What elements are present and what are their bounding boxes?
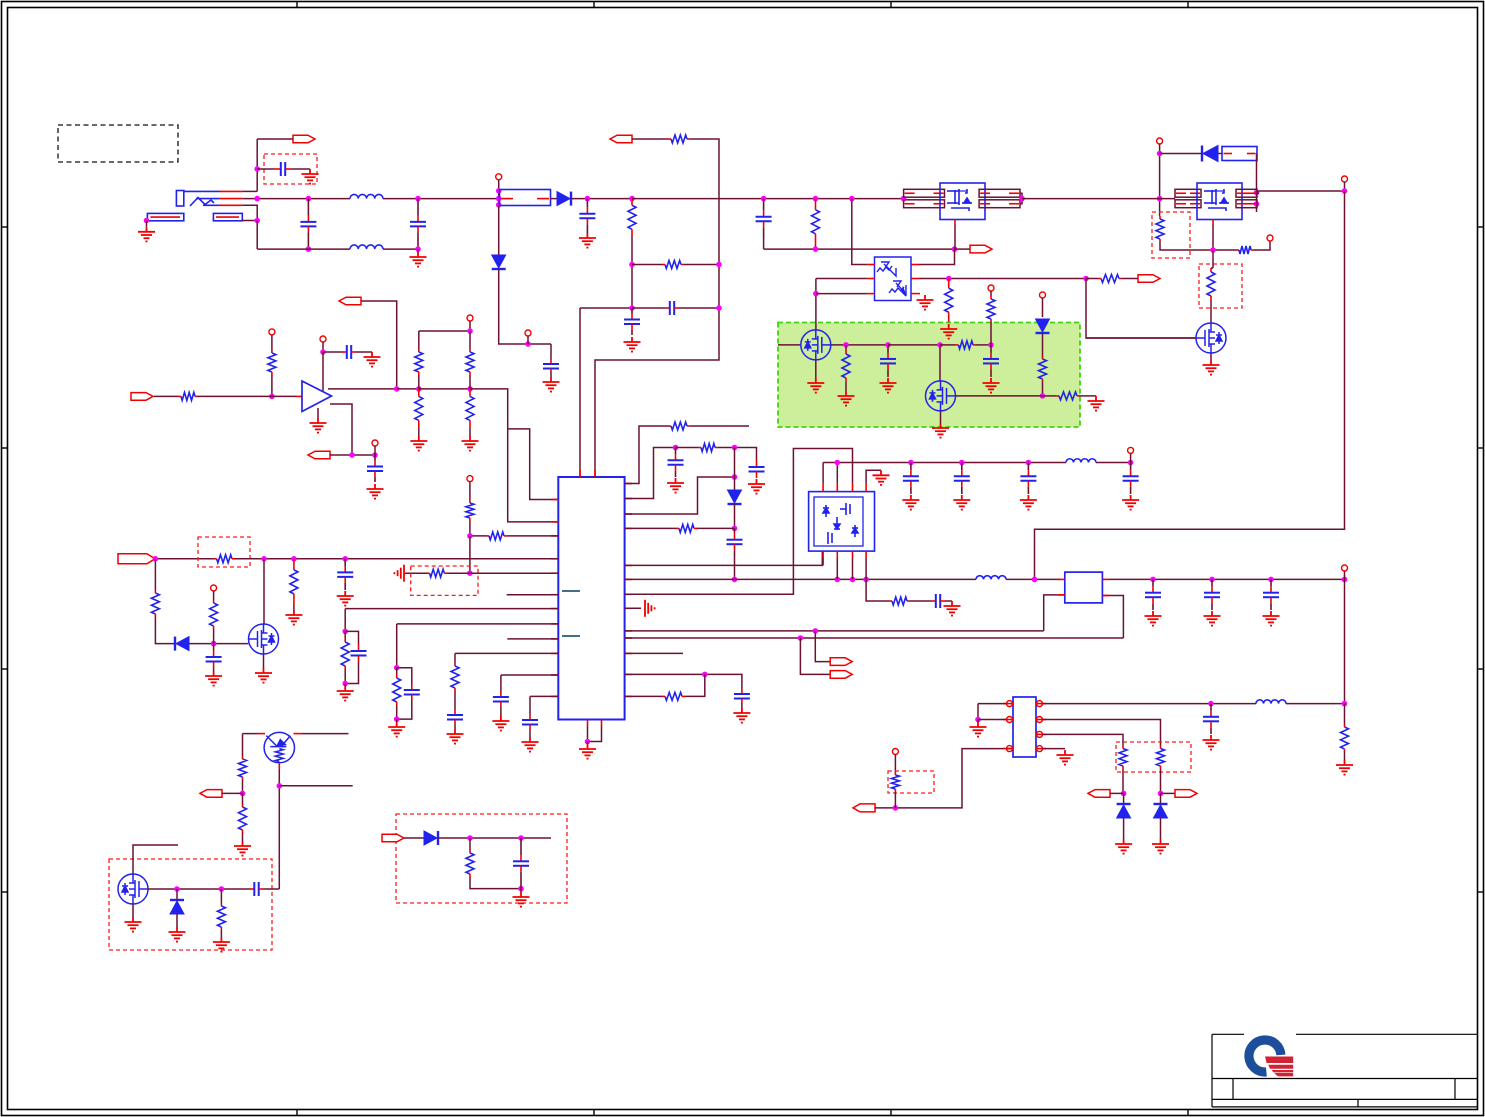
wire: [550, 344, 552, 360]
ground: [388, 722, 405, 737]
junction: [153, 556, 159, 562]
junction: [813, 628, 819, 634]
wire: [910, 600, 931, 602]
ground: [1203, 735, 1220, 750]
net label arrow: [853, 804, 875, 812]
wire: [257, 138, 293, 140]
resistor R19: [418, 389, 420, 397]
pin: [1267, 235, 1273, 241]
wire: [815, 360, 817, 378]
wire: [500, 675, 502, 692]
wire: [836, 558, 838, 579]
wire: [1043, 734, 1124, 745]
junction: [1121, 791, 1127, 797]
wire: [1086, 278, 1098, 280]
wire stub: [507, 594, 559, 596]
junction: [885, 342, 891, 348]
wire: [242, 205, 257, 220]
junction: [1254, 190, 1260, 196]
wire: [529, 696, 531, 715]
wire: [1210, 353, 1212, 360]
resistor R30: [454, 663, 456, 666]
wire: [133, 845, 178, 874]
wire: [919, 278, 1086, 280]
wire: [816, 278, 867, 280]
wire: [469, 521, 471, 536]
junction: [1157, 196, 1163, 202]
wire: [1043, 720, 1161, 746]
ground: [902, 495, 919, 510]
pin tab: [1175, 189, 1201, 197]
wire: [919, 249, 955, 264]
wire net VIN_RAW: [242, 198, 350, 200]
resistor R12: [990, 296, 992, 299]
wire: [396, 719, 398, 722]
junction: [320, 349, 326, 355]
ground: [125, 917, 142, 932]
resistor R35: [889, 600, 892, 602]
resistor R22: [469, 500, 471, 503]
wire: [469, 838, 471, 850]
junction: [1032, 577, 1038, 583]
wire: [198, 395, 296, 397]
junction: [988, 342, 994, 348]
resistor R37: [242, 804, 244, 807]
ground: [285, 610, 302, 625]
net label arrow: [830, 658, 852, 666]
capacitor C34: [1203, 704, 1219, 734]
junction: [585, 739, 591, 745]
junction: [1210, 247, 1216, 253]
wire: [1159, 215, 1161, 217]
zener diode D4: [1036, 319, 1050, 333]
ground: [624, 337, 641, 352]
red dashed box: [411, 566, 478, 595]
capacitor C2: [300, 199, 316, 250]
wire: [588, 726, 602, 742]
pin circle: [1007, 717, 1013, 723]
junction: [394, 386, 400, 392]
wire: [1210, 300, 1212, 323]
wire: [222, 792, 243, 794]
red dashed box: [888, 771, 934, 793]
junction: [673, 445, 679, 451]
capacitor C14: [337, 559, 353, 590]
ground: [1122, 495, 1139, 510]
junction: [415, 196, 421, 202]
junction: [1026, 460, 1032, 466]
wire: [718, 448, 757, 461]
wire: [292, 168, 310, 170]
wire: [257, 168, 274, 170]
chassis ground: [645, 600, 655, 617]
resistor R27: [427, 572, 430, 574]
wire bus: [155, 558, 214, 560]
pin circle: [1037, 717, 1043, 723]
wire stub: [625, 652, 683, 654]
ground: [410, 252, 427, 267]
junction: [629, 262, 635, 268]
wire: [374, 446, 376, 455]
resistor R2: [631, 199, 633, 206]
ground: [579, 233, 596, 248]
wire: [734, 555, 736, 579]
ground: [1057, 750, 1074, 765]
MOSFET load switch Q2: [1197, 183, 1242, 220]
wire: [625, 637, 1124, 639]
junction: [496, 202, 502, 208]
wire: [500, 706, 502, 716]
wire: [845, 345, 847, 350]
junction: [843, 342, 849, 348]
ground: [213, 937, 230, 952]
junction: [959, 460, 965, 466]
ground: [733, 708, 750, 723]
net label arrow VCC: [118, 554, 155, 564]
junction: [813, 246, 819, 252]
ground: [1020, 495, 1037, 510]
junction: [975, 717, 981, 723]
junction: [716, 305, 722, 311]
junction: [1342, 577, 1348, 583]
wire: [271, 335, 273, 350]
junction: [174, 886, 180, 892]
diode D6: [728, 490, 742, 504]
ground: [940, 324, 957, 339]
resistor R42: [1122, 746, 1124, 749]
ground: [255, 668, 272, 683]
wire: [469, 321, 471, 331]
wire: [852, 558, 854, 579]
red dashed box: [396, 814, 567, 903]
wire: [956, 395, 1043, 397]
junction: [467, 570, 473, 576]
wire: [697, 527, 735, 529]
resistor R39: [469, 850, 471, 853]
junction: [1254, 201, 1260, 207]
pin: [467, 476, 473, 482]
chassis ground: [394, 565, 404, 582]
wire: [189, 643, 248, 645]
pin: [1040, 292, 1046, 298]
junction: [813, 196, 819, 202]
junction: [1019, 196, 1025, 202]
junction: [1040, 393, 1046, 399]
IC pin stubs: [551, 470, 632, 726]
wire: [571, 198, 632, 200]
red dashed box (input cap group): [264, 154, 317, 184]
pin: [525, 330, 531, 336]
ground: [807, 378, 824, 393]
wire: [447, 572, 558, 574]
wire: [396, 706, 398, 719]
net label arrow input: [131, 393, 153, 401]
inductor L2: [350, 245, 383, 249]
wire: [470, 877, 521, 889]
junction: [585, 196, 591, 202]
capacitor C18: [493, 692, 509, 706]
junction: [467, 328, 473, 334]
ground: [880, 378, 897, 393]
resistor R24: [154, 590, 156, 593]
wire: [256, 221, 258, 250]
junction: [291, 556, 297, 562]
Q8 pin stubs: [257, 734, 302, 769]
ground: [1204, 611, 1221, 626]
junction: [732, 526, 738, 532]
wire: [154, 559, 156, 590]
wire: [990, 291, 992, 296]
wire: [1122, 769, 1124, 793]
wire: [836, 463, 838, 484]
wire: [1122, 278, 1138, 280]
wire: [822, 463, 824, 484]
ground: [205, 671, 222, 686]
wire gate: [778, 344, 801, 346]
junction: [342, 681, 348, 687]
pin tab: [904, 189, 945, 197]
wire: [213, 644, 215, 650]
ground: [917, 295, 934, 310]
wire: [551, 198, 558, 200]
wire: [579, 308, 581, 477]
gate stub Q2: [1212, 220, 1214, 226]
inductor L3: [976, 576, 1006, 580]
ground: [873, 470, 890, 485]
capacitor C3: [410, 199, 426, 250]
wire: [1043, 748, 1066, 750]
ground: [1115, 839, 1132, 854]
resistor R32: [698, 447, 701, 449]
wire: [418, 375, 420, 389]
wire: [418, 428, 420, 436]
junction: [1128, 460, 1134, 466]
wire: [587, 742, 589, 745]
inductor L1: [350, 194, 383, 198]
wire: [469, 482, 471, 500]
wire: [278, 769, 280, 889]
wire bus: [823, 462, 1066, 464]
wire: [242, 833, 244, 841]
junction: [893, 805, 899, 811]
ground: [1263, 611, 1280, 626]
junction: [1208, 701, 1214, 707]
junction: [525, 341, 531, 347]
wire: [263, 559, 265, 624]
U4 pin stubs: [1058, 579, 1109, 595]
wire: [397, 700, 412, 719]
op-amp input stub: [296, 395, 302, 397]
ground: [983, 378, 1000, 393]
wire: [356, 351, 372, 353]
capacitor C31: [1263, 579, 1279, 610]
wire: [625, 449, 853, 595]
junction: [908, 460, 914, 466]
wire: [470, 535, 486, 537]
capacitor C9: [880, 345, 896, 377]
capacitor C11: [342, 345, 356, 359]
wire: [875, 749, 1013, 808]
junction: [254, 166, 260, 172]
ground: [953, 495, 970, 510]
wire: [383, 248, 418, 250]
red dashed box: [198, 537, 250, 567]
logo: [1249, 1040, 1293, 1076]
wire: [454, 724, 456, 729]
capacitor C19: [522, 715, 538, 729]
wire: [293, 605, 295, 610]
junction: [277, 783, 283, 789]
resistor R9: [1210, 268, 1212, 272]
wire: [587, 726, 589, 742]
pin tab: [1175, 200, 1201, 208]
wire: [852, 199, 868, 265]
ground: [337, 686, 354, 701]
wire: [322, 352, 324, 391]
wire: [155, 617, 175, 644]
wire: [345, 662, 358, 684]
wire: [631, 236, 633, 308]
junction: [1158, 791, 1164, 797]
diode D1: [557, 192, 571, 206]
junction: [518, 835, 524, 841]
capacitor C15: [351, 644, 367, 662]
ground: [838, 391, 855, 406]
junction: [415, 246, 421, 252]
resistor R25: [213, 600, 215, 603]
wire: [977, 720, 979, 723]
wire: [1218, 153, 1222, 155]
op-amp U3: [302, 381, 332, 412]
pin circle: [1037, 701, 1043, 707]
wire: [550, 372, 552, 377]
wire to IC: [470, 389, 558, 522]
wire: [1212, 225, 1214, 250]
dual MOSFET block Q7: [809, 492, 875, 551]
module U4: [1065, 572, 1103, 603]
wire: [940, 344, 955, 346]
junction: [1157, 151, 1163, 157]
wire: [1130, 453, 1132, 462]
wire: [1254, 241, 1270, 250]
junction: [372, 452, 378, 458]
wire: [1344, 579, 1346, 703]
junction: [219, 886, 225, 892]
pin: [892, 749, 898, 755]
wire: [625, 607, 641, 609]
MOSFET Q6: [249, 624, 279, 654]
ground: [462, 436, 479, 451]
ground: [337, 591, 354, 606]
inductor L4: [1066, 459, 1096, 463]
junction: [937, 342, 943, 348]
wire stub: [507, 638, 558, 640]
wire: [632, 198, 904, 200]
resistor R41: [1344, 724, 1346, 727]
wire stub: [302, 733, 349, 735]
wire: [344, 670, 346, 684]
jack pin stubs: [150, 191, 242, 217]
net label arrow: [339, 297, 361, 305]
junction: [394, 716, 400, 722]
wire: [361, 301, 397, 389]
junction: [1268, 577, 1274, 583]
ground: [513, 892, 530, 907]
wire: [330, 454, 352, 456]
wire: [685, 674, 705, 696]
wire: [344, 609, 346, 632]
capacitor C24: [931, 594, 945, 608]
MOSFET Q4: [801, 330, 831, 360]
wire: [815, 631, 830, 662]
ground: [932, 423, 949, 438]
junction: [952, 246, 958, 252]
junction: [467, 386, 473, 392]
wire: [438, 837, 551, 839]
capacitor C1: [274, 162, 292, 176]
wire: [154, 395, 178, 397]
pin: [211, 585, 217, 591]
junction: [835, 577, 841, 583]
wire: [625, 674, 742, 689]
MOSFET Q9: [118, 874, 148, 904]
capacitor C32: [250, 882, 264, 896]
ground: [234, 841, 251, 856]
text placeholder box (black dashed): [58, 125, 178, 162]
wire: [317, 408, 319, 418]
junction: [254, 218, 260, 224]
ground: [522, 737, 539, 752]
junction: [849, 196, 855, 202]
wire: [1123, 793, 1125, 803]
ground: [302, 169, 319, 184]
pin VIN test point: [496, 174, 502, 180]
wire: [954, 225, 956, 249]
net label arrow: [1138, 275, 1160, 283]
pin tab: [904, 200, 945, 208]
wire: [469, 428, 471, 436]
wire: [501, 674, 558, 676]
junction: [813, 291, 819, 297]
wire: [1160, 153, 1202, 155]
wire: [1086, 337, 1196, 339]
highlight box (green region): [778, 323, 1080, 428]
wire: [264, 888, 280, 890]
pin: [1342, 565, 1348, 571]
wire: [454, 653, 456, 663]
junction: [518, 886, 524, 892]
wire: [625, 527, 676, 529]
wire: [507, 535, 558, 537]
net label arrow: [610, 135, 632, 143]
wire bus: [625, 578, 976, 580]
wire: [499, 269, 551, 344]
wire bus: [235, 558, 558, 560]
wire: [455, 652, 558, 654]
capacitor C16: [404, 684, 420, 700]
wire: [148, 888, 250, 890]
capacitor C23: [734, 689, 750, 703]
wire: [1160, 769, 1162, 793]
ground: [543, 377, 560, 392]
wire: [1344, 704, 1346, 724]
wire: [1344, 752, 1346, 760]
wire: [1042, 333, 1044, 356]
junction: [261, 556, 267, 562]
junction: [467, 835, 473, 841]
resistor R5: [948, 279, 950, 289]
wire: [1043, 395, 1057, 397]
